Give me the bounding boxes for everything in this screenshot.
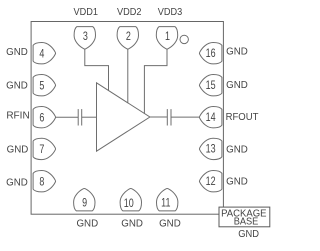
svg-text:6: 6: [39, 112, 44, 124]
svg-text:7: 7: [39, 144, 44, 156]
pin 12: [199, 171, 221, 192]
svg-text:GND: GND: [226, 144, 248, 155]
svg-text:GND: GND: [226, 46, 248, 57]
svg-text:GND: GND: [7, 144, 29, 155]
pin 11: [157, 188, 178, 210]
pin 16: [199, 43, 221, 64]
svg-text:GND: GND: [121, 218, 143, 229]
svg-text:5: 5: [39, 80, 44, 92]
svg-text:8: 8: [39, 176, 44, 188]
svg-text:GND: GND: [159, 218, 181, 229]
svg-text:RFOUT: RFOUT: [226, 112, 259, 124]
wire capacitor C2 to pin 14 RFOUT: [171, 116, 199, 118]
svg-text:RFIN: RFIN: [6, 110, 29, 121]
pin 3: [74, 27, 95, 49]
wire VDD1 pin3 to amplifier: [85, 49, 109, 91]
pin 1: [156, 27, 177, 49]
svg-text:16: 16: [206, 48, 216, 60]
svg-text:3: 3: [83, 31, 88, 43]
svg-text:13: 13: [206, 144, 216, 156]
svg-text:GND: GND: [226, 80, 248, 91]
svg-text:GND: GND: [238, 228, 259, 240]
wire VDD3 pin1 to amplifier: [144, 49, 167, 114]
pin 5: [33, 75, 55, 96]
package base box: [219, 207, 270, 227]
pin 4: [33, 43, 55, 64]
svg-text:4: 4: [39, 48, 44, 60]
package outline: [31, 22, 223, 215]
wire amplifier output to capacitor C2: [150, 116, 167, 118]
svg-text:15: 15: [206, 80, 216, 92]
pin 2: [117, 27, 138, 49]
svg-text:14: 14: [206, 112, 216, 124]
pin 8: [33, 171, 55, 192]
svg-text:VDD3: VDD3: [158, 6, 183, 18]
svg-text:GND: GND: [6, 80, 28, 91]
svg-text:2: 2: [126, 31, 131, 43]
pin 13: [199, 138, 221, 159]
svg-text:10: 10: [124, 198, 134, 210]
pin 10: [120, 188, 141, 210]
svg-text:GND: GND: [6, 177, 28, 188]
pin 6: [33, 107, 55, 128]
pin 9: [74, 188, 95, 210]
svg-text:GND: GND: [226, 176, 248, 187]
svg-text:VDD1: VDD1: [73, 6, 98, 18]
svg-text:VDD2: VDD2: [117, 6, 142, 18]
svg-text:GND: GND: [76, 218, 98, 229]
pin 7: [33, 138, 55, 159]
capacitor C1 input: [78, 109, 82, 125]
wire VDD2 pin2 to amplifier: [127, 49, 129, 103]
wire RFIN pin6 to capacitor C1: [56, 116, 79, 118]
svg-text:11: 11: [161, 198, 171, 210]
amplifier A1: [97, 83, 150, 151]
pin 1 indicator circle: [180, 35, 188, 43]
pin 14: [199, 107, 221, 128]
wire capacitor C1 to amplifier input: [82, 116, 97, 118]
svg-text:BASE: BASE: [234, 216, 259, 228]
svg-text:GND: GND: [6, 47, 28, 58]
capacitor C2 output: [167, 109, 171, 125]
svg-text:12: 12: [206, 176, 216, 188]
pin 15: [199, 75, 221, 96]
svg-text:1: 1: [165, 31, 170, 43]
svg-text:9: 9: [82, 197, 87, 209]
